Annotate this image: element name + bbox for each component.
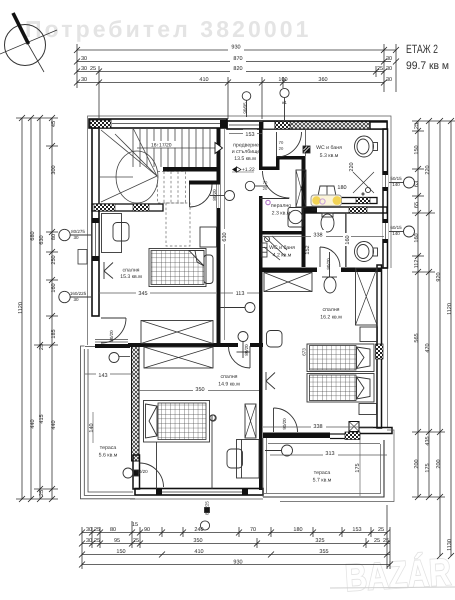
bath5.3 south wall / niche north wall xyxy=(305,198,387,214)
svg-text:220: 220 xyxy=(349,162,355,171)
laundry top S-wall xyxy=(259,156,302,170)
svg-text:13.5 кв.м: 13.5 кв.м xyxy=(234,156,256,162)
laundry east wall xyxy=(302,156,306,267)
svg-text:30: 30 xyxy=(86,527,92,533)
bottom wall left part xyxy=(130,489,263,500)
terrace 5.6 wall pier with hatch xyxy=(132,344,140,489)
svg-text:60/15: 60/15 xyxy=(390,225,402,230)
svg-text:150: 150 xyxy=(116,549,125,555)
svg-text:50/15: 50/15 xyxy=(390,176,402,181)
svg-text:180: 180 xyxy=(337,185,346,191)
svg-text:930: 930 xyxy=(233,560,242,566)
door/window tag circles xyxy=(59,88,415,530)
svg-text:313: 313 xyxy=(325,451,334,457)
svg-text:30: 30 xyxy=(81,66,87,72)
svg-text:16↑17/20: 16↑17/20 xyxy=(151,143,172,149)
svg-text:80/20: 80/20 xyxy=(244,344,249,356)
svg-text:360: 360 xyxy=(318,77,327,83)
svg-text:680: 680 xyxy=(30,231,36,240)
shower xyxy=(353,172,374,193)
svg-text:630: 630 xyxy=(222,232,228,241)
svg-text:88: 88 xyxy=(311,207,317,212)
svg-text:345: 345 xyxy=(138,291,147,297)
svg-text:5.6 кв.м: 5.6 кв.м xyxy=(99,453,118,459)
svg-text:BAZÁR: BAZÁR xyxy=(344,551,452,600)
svg-text:тераса: тераса xyxy=(314,470,331,476)
svg-text:99.7 кв м: 99.7 кв м xyxy=(406,60,449,72)
door terrace 5.6 lower xyxy=(140,463,164,487)
svg-text:25: 25 xyxy=(383,538,389,544)
svg-text:15: 15 xyxy=(132,522,138,528)
svg-text:80: 80 xyxy=(51,234,57,240)
left dims xyxy=(16,118,58,499)
svg-text:25: 25 xyxy=(133,538,139,544)
outer thin contour xyxy=(88,116,392,428)
staircase xyxy=(99,128,223,246)
door bath5.3 xyxy=(276,132,278,157)
svg-text:спалня: спалня xyxy=(323,307,340,313)
svg-text:63: 63 xyxy=(414,181,420,187)
svg-text:160: 160 xyxy=(345,235,351,244)
door bedroom 14.9 xyxy=(229,347,251,369)
radiator box left wall xyxy=(78,250,87,265)
bottom wall of bedroom2 / terrace top right xyxy=(263,422,392,440)
+1.22 level marker xyxy=(232,167,255,173)
svg-text:470: 470 xyxy=(425,343,431,352)
svg-text:2.3 кв.м: 2.3 кв.м xyxy=(272,211,291,217)
svg-text:350: 350 xyxy=(193,538,202,544)
laundry fixtures xyxy=(288,170,306,227)
svg-text:30: 30 xyxy=(73,297,79,302)
svg-text:65: 65 xyxy=(414,202,420,208)
svg-text:16.2 кв.м: 16.2 кв.м xyxy=(320,315,342,321)
svg-text:WC и баня: WC и баня xyxy=(316,145,342,151)
svg-text:565: 565 xyxy=(414,333,420,342)
svg-text:ЕТАЖ 2: ЕТАЖ 2 xyxy=(406,42,438,56)
furniture bedroom1 xyxy=(102,214,217,287)
door terrace 5.7 xyxy=(273,408,275,432)
svg-text:153: 153 xyxy=(245,132,254,138)
svg-text:70: 70 xyxy=(250,527,256,533)
wc4.2/hall south wall xyxy=(259,268,381,273)
svg-text:перално: перално xyxy=(271,203,291,209)
wardrobe top (horizontal, north wall) xyxy=(264,273,312,292)
bottom dims xyxy=(82,505,390,569)
doors (arcs) xyxy=(101,132,340,487)
svg-text:80/225: 80/225 xyxy=(205,501,210,515)
svg-text:25: 25 xyxy=(377,66,383,72)
svg-text:143: 143 xyxy=(98,373,107,379)
wc4.2 north wall xyxy=(259,231,305,235)
svg-text:355: 355 xyxy=(319,549,328,555)
chair + K lamp xyxy=(267,331,283,348)
svg-text:предверие: предверие xyxy=(233,143,259,149)
svg-text:спалня: спалня xyxy=(221,374,238,380)
top wall left section (stair block) xyxy=(89,119,227,128)
svg-text:30: 30 xyxy=(81,77,87,83)
svg-text:25: 25 xyxy=(90,66,96,72)
bidet above tub xyxy=(318,186,336,196)
svg-text:45: 45 xyxy=(51,121,57,127)
room labels xyxy=(99,143,343,484)
svg-text:Потребител 3820001: Потребител 3820001 xyxy=(25,16,312,42)
svg-text:200: 200 xyxy=(414,459,420,468)
svg-text:325: 325 xyxy=(315,538,324,544)
svg-text:440: 440 xyxy=(30,419,36,428)
svg-text:152: 152 xyxy=(305,245,311,254)
left outer wall xyxy=(92,128,99,316)
svg-text:WC и баня: WC и баня xyxy=(269,245,295,251)
svg-text:140: 140 xyxy=(392,231,400,236)
svg-text:14.9 кв.м: 14.9 кв.м xyxy=(218,382,240,388)
column xyxy=(303,146,310,153)
svg-text:30: 30 xyxy=(73,235,79,240)
vestibule east wall / laundry west wall xyxy=(259,129,263,490)
svg-text:150: 150 xyxy=(414,145,420,154)
right outer wall upper xyxy=(383,129,389,268)
svg-text:5.7 кв.м: 5.7 кв.м xyxy=(313,478,332,484)
fan / diagonals xyxy=(101,130,157,176)
svg-text:113: 113 xyxy=(236,291,245,297)
svg-text:1130: 1130 xyxy=(447,539,453,551)
svg-text:338: 338 xyxy=(313,233,322,239)
door terrace from bedroom1 xyxy=(101,317,126,319)
svg-text:5.3 кв.м: 5.3 кв.м xyxy=(320,153,339,159)
inner wall W1 vertical (stair/bedroom1 east) xyxy=(217,128,221,345)
svg-text:70: 70 xyxy=(263,180,268,185)
sink in niche xyxy=(355,242,374,262)
svg-text:90: 90 xyxy=(144,527,150,533)
svg-text:80/275: 80/275 xyxy=(71,229,85,234)
svg-text:25: 25 xyxy=(374,538,380,544)
winder ellipse xyxy=(116,151,158,203)
svg-text:153: 153 xyxy=(352,527,361,533)
svg-text:240: 240 xyxy=(194,527,203,533)
svg-text:920: 920 xyxy=(436,272,442,281)
right dims xyxy=(385,121,455,556)
treads upper flight xyxy=(132,128,134,167)
svg-text:80/20: 80/20 xyxy=(109,330,114,342)
terrace 5.6 outline bottom-left xyxy=(81,346,136,499)
wardrobes between bedroom1/14.9 xyxy=(141,321,213,369)
svg-text:415: 415 xyxy=(39,414,45,423)
internal dims xyxy=(85,129,387,496)
north arrow xyxy=(0,13,57,72)
niche west wall thin xyxy=(345,213,347,267)
svg-text:220: 220 xyxy=(425,165,431,174)
terrace top wall piece below bedroom1 door xyxy=(95,340,130,363)
svg-text:175: 175 xyxy=(425,463,431,472)
bathtub yellow xyxy=(311,195,342,206)
svg-text:200: 200 xyxy=(436,459,442,468)
stair boundary xyxy=(98,128,100,204)
svg-text:25: 25 xyxy=(39,490,45,496)
svg-text:350: 350 xyxy=(195,387,204,393)
watermark bazar logo xyxy=(344,551,452,600)
svg-text:спалня: спалня xyxy=(123,268,140,274)
svg-text:180: 180 xyxy=(293,527,302,533)
svg-text:90/05: 90/05 xyxy=(243,102,248,114)
svg-text:630: 630 xyxy=(39,235,45,244)
svg-text:160: 160 xyxy=(414,233,420,242)
svg-text:160: 160 xyxy=(51,283,57,292)
svg-text:80/20: 80/20 xyxy=(212,189,217,201)
svg-text:338: 338 xyxy=(313,424,322,430)
svg-text:673: 673 xyxy=(302,348,307,356)
dashed void under stairs xyxy=(158,172,191,247)
sink top xyxy=(355,136,374,157)
bedroom1 south wall xyxy=(128,343,238,347)
title block xyxy=(406,42,449,72)
svg-text:300: 300 xyxy=(51,165,57,174)
wc4.2 fixtures xyxy=(262,236,288,260)
svg-text:930: 930 xyxy=(231,45,240,51)
walk line with arrow xyxy=(137,147,215,149)
svg-text:90/20: 90/20 xyxy=(282,418,287,430)
furniture bedroom2 xyxy=(264,268,378,415)
svg-text:80: 80 xyxy=(110,527,116,533)
svg-text:440: 440 xyxy=(51,420,57,429)
door bedroom2 xyxy=(319,247,321,267)
svg-text:410: 410 xyxy=(194,549,203,555)
en-suite wc fixtures xyxy=(321,213,378,293)
svg-text:1120: 1120 xyxy=(18,302,24,314)
pedestal below door xyxy=(324,277,336,293)
svg-text:20: 20 xyxy=(279,146,284,151)
svg-text:95: 95 xyxy=(114,538,120,544)
svg-text:140: 140 xyxy=(392,182,400,187)
inner wall stair/bedroom1 left part with hatch piers xyxy=(92,204,163,211)
top dims xyxy=(77,44,396,119)
svg-text:175: 175 xyxy=(355,463,361,472)
svg-text:70: 70 xyxy=(279,140,284,145)
svg-text:90/20: 90/20 xyxy=(326,258,331,270)
inner wall stair bottom xyxy=(163,167,220,185)
svg-text:20: 20 xyxy=(263,186,268,191)
svg-text:4.2 кв.м: 4.2 кв.м xyxy=(273,253,292,259)
furniture bedroom 14.9 xyxy=(144,401,260,490)
terrace 5.7 outline bottom-right xyxy=(263,440,384,497)
svg-text:и стълбище: и стълбище xyxy=(232,149,261,155)
svg-text:435: 435 xyxy=(425,436,431,445)
beds xyxy=(307,344,374,372)
right outer wall lower (stepped in) xyxy=(376,265,388,428)
door vestibule->bedroom hall xyxy=(189,185,191,208)
bath 5.3 fixtures xyxy=(303,136,378,196)
svg-text:250: 250 xyxy=(51,255,57,264)
svg-text:160/225: 160/225 xyxy=(70,291,87,296)
svg-text:30: 30 xyxy=(86,538,92,544)
svg-text:820: 820 xyxy=(233,66,242,72)
svg-text:тераса: тераса xyxy=(100,445,117,451)
svg-text:1120: 1120 xyxy=(447,303,453,315)
svg-text:25: 25 xyxy=(378,527,384,533)
svg-text:140: 140 xyxy=(89,423,95,432)
svg-text:410: 410 xyxy=(199,77,208,83)
svg-text:185: 185 xyxy=(51,329,57,338)
door laundry xyxy=(263,171,290,198)
top wall right section xyxy=(227,121,387,129)
svg-text:30: 30 xyxy=(81,56,87,62)
svg-text:870: 870 xyxy=(233,56,242,62)
svg-text:15.3 кв.м: 15.3 кв.м xyxy=(120,274,142,280)
tall wardrobe right xyxy=(356,268,378,325)
svg-text:к1: к1 xyxy=(282,100,287,105)
svg-text:80/20: 80/20 xyxy=(136,469,148,474)
svg-text:112: 112 xyxy=(414,260,420,269)
